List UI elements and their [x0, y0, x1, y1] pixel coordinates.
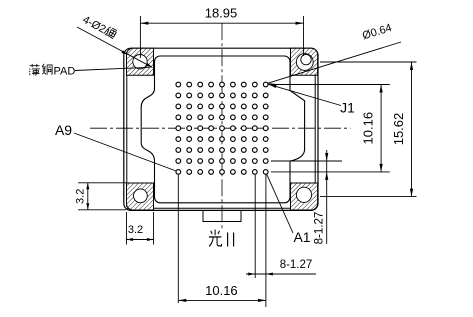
- label 4-phi2 through-hole: [80, 14, 117, 41]
- svg-text:3.2: 3.2: [128, 224, 143, 236]
- svg-text:A9: A9: [55, 122, 72, 138]
- dimension 15.62 right: [320, 62, 417, 197]
- pin grid 9x9 (Ø0.64 holes): [176, 82, 268, 174]
- body inner edge left: [126, 52, 128, 207]
- label thin-copper PAD: [29, 64, 40, 75]
- dimension 8-1.27 bottom: [246, 175, 316, 278]
- mounting hole top-left: [133, 55, 147, 69]
- leader J1 to pin J1: [269, 84, 342, 105]
- svg-text:8-1.27: 8-1.27: [314, 212, 326, 245]
- body inner edge bottom: [127, 207, 315, 209]
- svg-text:3.2: 3.2: [75, 189, 87, 204]
- leader A9 to pin A9: [74, 133, 176, 171]
- body inner edge right: [314, 52, 316, 207]
- dimension 10.16 right: [271, 85, 390, 172]
- svg-text:8-1.27: 8-1.27: [280, 259, 313, 271]
- mounting hole top-right: [296, 54, 313, 71]
- dimension 18.95 top: [140, 6, 303, 59]
- svg-text:10.16: 10.16: [205, 283, 238, 298]
- socket body outer outline: [124, 48, 318, 210]
- leader phi0.64 to pin: [268, 42, 401, 87]
- label phi0.64 pin hole dia: [361, 22, 393, 42]
- dimension 8-1.27 right: [271, 150, 342, 244]
- mounting pad top-right (hatched): [291, 48, 318, 75]
- dimension 3.2 bottom: [127, 212, 154, 245]
- dimension 3.2 left: [75, 183, 127, 210]
- svg-text:15.62: 15.62: [391, 113, 406, 146]
- svg-text:10.16: 10.16: [361, 112, 376, 145]
- cavity outline with side notches: [141, 56, 304, 203]
- leader thin-copper-PAD: [75, 67, 150, 70]
- leader 4-phi2 to top-left pad: [77, 27, 153, 68]
- mounting pad bottom-right (hatched): [291, 183, 318, 210]
- bottom key tab: [203, 210, 241, 221]
- label optical port (Chinese): [209, 230, 222, 247]
- mounting hole bottom-left: [134, 189, 148, 203]
- leader A1 to pin A1: [267, 174, 294, 233]
- dimension 10.16 bottom: [178, 175, 266, 307]
- mounting pad bottom-left (hatched): [127, 183, 154, 210]
- svg-text:18.95: 18.95: [205, 6, 238, 21]
- horizontal centerline: [90, 127, 351, 129]
- svg-text:PAD: PAD: [54, 66, 76, 78]
- mounting pad top-left (hatched): [127, 48, 154, 75]
- svg-text:J1: J1: [340, 100, 355, 116]
- vertical centerline: [221, 23, 223, 228]
- mounting hole bottom-right: [296, 187, 311, 202]
- svg-text:A1: A1: [293, 229, 310, 245]
